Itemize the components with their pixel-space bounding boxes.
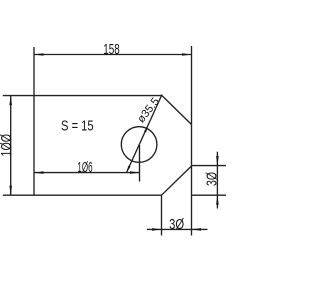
dimension 158: dimension line [34, 54, 192, 56]
svg-text:158: 158 [103, 42, 120, 58]
svg-text:1ØØ: 1ØØ [0, 134, 15, 157]
dimension right 30: upper extension line [192, 165, 227, 167]
arrow right30 top [216, 156, 219, 166]
svg-text:S = 15: S = 15 [61, 119, 94, 135]
arrow on leader at bottom end (points down-left) [127, 166, 131, 173]
part outline: top edge (with left extension of 100 dim) [3, 95, 162, 97]
arrow right30 bottom [216, 195, 219, 205]
arrow bottom30 left (outside, points right) [152, 228, 162, 231]
arrow 106 right [130, 171, 140, 174]
hole circle d35.5 [121, 127, 157, 163]
dimension right 30: lower extension line [192, 194, 227, 196]
part outline: right edge merged with extension lines of 158 and bottom 30 dims [191, 46, 193, 236]
svg-text:1Ø6: 1Ø6 [77, 160, 92, 176]
part outline: left edge merged with left extension of 158 dim [33, 47, 35, 195]
arrow 158 right [182, 53, 192, 56]
arrow bottom30 right (outside, points left) [192, 228, 202, 231]
dimension 100: dimension line [10, 96, 12, 196]
part outline: bottom edge (with left extension of 100 dim) [3, 194, 162, 196]
svg-text:3Ø: 3Ø [169, 217, 184, 233]
dimension bottom 30: dimension line with tails [147, 228, 208, 230]
arrow 158 left [34, 53, 44, 56]
dimension 106: dimension line [34, 172, 140, 174]
part outline: top-right chamfer [162, 96, 192, 125]
dimension bottom 30: left extension line [161, 195, 163, 235]
arrow 100 bottom [9, 186, 12, 196]
arrow on leader at circle top crossing (points up-right) [144, 126, 148, 132]
svg-text:3Ø: 3Ø [205, 172, 221, 186]
arrow 106 left [34, 171, 44, 174]
leader line of d35.5 [127, 95, 163, 173]
dimension right 30: dimension line [216, 152, 218, 209]
part outline: bottom-right chamfer [162, 166, 192, 195]
arrow 100 top [9, 96, 12, 106]
hole vertical centerline [139, 145, 141, 182]
